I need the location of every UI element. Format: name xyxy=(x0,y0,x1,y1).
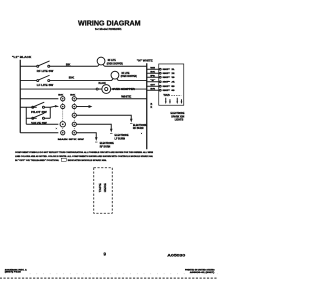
spark gap 1 xyxy=(165,98,171,104)
connector pin R2 xyxy=(72,104,76,108)
label VALVE SW xyxy=(31,122,47,125)
label ELECTRODE RF BURN xyxy=(133,125,147,130)
note line 1 xyxy=(15,151,154,162)
label ELECTRODE LF BURN xyxy=(115,135,129,140)
label MAIN SPK SW xyxy=(58,138,86,141)
svg-text:ELECTRODE: ELECTRODE xyxy=(170,113,184,115)
svg-text:WHITE: WHITE xyxy=(121,96,132,99)
wire row2 to lamp xyxy=(50,80,112,82)
wire bottom row5 from bus xyxy=(20,132,58,134)
lamp OVEN (double circle) xyxy=(102,85,111,94)
electrode LF arrow xyxy=(110,129,113,133)
svg-text:WIRING DIAGRAM: WIRING DIAGRAM xyxy=(78,20,141,27)
svg-text:PRINTED IN UNITED STATES: PRINTED IN UNITED STATES xyxy=(185,268,215,271)
svg-text:LF LITE SW: LF LITE SW xyxy=(37,83,54,87)
svg-text:BLACK: BLACK xyxy=(98,82,106,85)
module box spark module xyxy=(159,64,184,105)
page number 9 xyxy=(104,251,107,256)
svg-text:ELECTRODE: ELECTRODE xyxy=(133,125,147,127)
faint dots row xyxy=(30,273,218,275)
svg-text:ELECTRODE: ELECTRODE xyxy=(100,143,114,145)
wire row1 left xyxy=(20,65,37,67)
spark gap 2 xyxy=(176,98,182,104)
electrode RF arrow xyxy=(130,119,133,123)
bus N (right vertical) xyxy=(146,63,148,149)
svg-text:VALVE SW: VALVE SW xyxy=(31,122,47,125)
svg-text:BR: BR xyxy=(150,89,155,91)
wire conn row4 xyxy=(76,124,111,129)
wire row1 to N bus xyxy=(104,65,146,67)
label HERE vertical xyxy=(103,183,107,192)
wire connector row1 from bus xyxy=(20,98,58,100)
svg-text:"N" WHITE: "N" WHITE xyxy=(137,58,153,62)
wire conn row5 xyxy=(76,133,96,138)
tape here dashed box xyxy=(94,168,113,214)
connector pin R5 xyxy=(72,131,76,135)
title WIRING DIAGRAM xyxy=(78,20,141,27)
svg-text:A05030-01 (9907): A05030-01 (9907) xyxy=(190,271,215,274)
switch LF LITE SW xyxy=(37,75,50,81)
label BK row1 xyxy=(66,64,71,67)
svg-text:INDICATES MODULE SPARK IGN.: INDICATES MODULE SPARK IGN. xyxy=(68,159,107,162)
module pin texts xyxy=(163,69,177,92)
svg-text:TAB: TAB xyxy=(163,94,170,97)
svg-text:PILOT SW: PILOT SW xyxy=(31,111,47,114)
svg-text:(OVEN CHOPPER): (OVEN CHOPPER) xyxy=(107,62,123,65)
svg-text:COMPONENT SYMBOLS DO NOT REFLE: COMPONENT SYMBOLS DO NOT REFLECT TRUE CO… xyxy=(15,151,154,154)
svg-text:BK: BK xyxy=(66,64,71,67)
wire row2 left xyxy=(20,80,37,82)
svg-text:"L1" BLACK: "L1" BLACK xyxy=(12,55,32,59)
note checkbox xyxy=(61,158,66,161)
svg-text:RF BURN: RF BURN xyxy=(133,128,144,130)
wire SW outputs xyxy=(44,107,50,118)
switch VALVE SW xyxy=(32,113,45,119)
terminal dot row3 xyxy=(96,88,98,90)
svg-text:TAPE: TAPE xyxy=(98,183,102,192)
svg-text:WH: WH xyxy=(150,68,155,70)
label ELECTRODE RR BURN xyxy=(100,143,114,148)
svg-text:(9907) P24S: (9907) P24S xyxy=(5,271,22,274)
lamp RF LITE (omega) xyxy=(97,57,105,66)
wire SW2 feed xyxy=(26,117,37,119)
label WH xyxy=(121,96,132,99)
label LF LITE lamp2 xyxy=(121,72,137,78)
connector pin R1 xyxy=(72,97,76,101)
connector pin L5 xyxy=(61,131,65,135)
switch RF LITE SW xyxy=(37,61,50,67)
svg-text:BK: BK xyxy=(70,94,76,96)
electrode RR arrow xyxy=(95,137,98,141)
footer right text xyxy=(185,268,215,274)
connector pin L4 xyxy=(60,122,65,127)
wire bracket feed xyxy=(20,106,37,108)
wire row3 to N bus xyxy=(111,88,147,90)
label RF LITE SW xyxy=(37,69,54,73)
label LF LITE SW xyxy=(37,83,54,87)
svg-text:IN "OFF" OR "RELEASED" POSITIO: IN "OFF" OR "RELEASED" POSITION. xyxy=(15,159,59,162)
bus L1 (left vertical) xyxy=(19,60,21,133)
label L1 BLACK xyxy=(12,55,32,59)
svg-text:9: 9 xyxy=(104,251,107,256)
connector pin L1 xyxy=(61,97,65,101)
wire bracket bottom to row4 xyxy=(26,123,58,125)
labels BK BK above connector xyxy=(58,94,76,96)
speck x xyxy=(56,128,57,129)
footer left text xyxy=(5,268,28,273)
connector pin R3 xyxy=(72,113,76,117)
bracket left bar xyxy=(25,107,27,124)
lamp LF LITE (omega) xyxy=(111,71,119,80)
svg-text:LIGHTS: LIGHTS xyxy=(175,120,184,122)
svg-text:K: K xyxy=(151,106,153,109)
svg-text:for Model P24S2451: for Model P24S2451 xyxy=(95,27,122,31)
svg-text:RF LITE SW: RF LITE SW xyxy=(37,69,54,73)
connector pin R4 xyxy=(72,122,76,126)
svg-text:ELECTRODE: ELECTRODE xyxy=(115,135,129,137)
label TAPE vertical xyxy=(98,183,102,192)
svg-text:(OVEN CHOPPER): (OVEN CHOPPER) xyxy=(121,75,137,78)
wire conn row3 xyxy=(76,115,131,119)
module pin wire 3 xyxy=(147,76,159,78)
module tab dashes xyxy=(171,95,181,97)
label RF LITE lamp1 xyxy=(107,59,123,65)
connector chain dashed right xyxy=(73,97,75,135)
label BK row2 xyxy=(69,77,75,80)
svg-text:LINE COLORS ARE AS NOTED. COLO: LINE COLORS ARE AS NOTED. COLOR IS WHITE… xyxy=(15,155,153,158)
label OVEN CHOPPER xyxy=(112,88,135,91)
module pin circles xyxy=(159,68,161,91)
label BK vertical xyxy=(151,103,153,109)
svg-text:RF BURN: RF BURN xyxy=(100,146,111,148)
svg-text:MAIN SPK SW: MAIN SPK SW xyxy=(58,138,86,141)
perforation dotted rule xyxy=(0,277,218,279)
label BLACK xyxy=(98,82,106,85)
module pin wire 1 xyxy=(147,68,159,70)
label N WHITE xyxy=(137,58,153,62)
label ELECTRODE SPARK IGN xyxy=(170,113,184,122)
module TAB text xyxy=(163,94,170,97)
module pin wire 2 xyxy=(147,72,159,74)
svg-text:SPARK IGN: SPARK IGN xyxy=(171,115,184,118)
svg-text:BK: BK xyxy=(69,77,75,80)
svg-text:LF BURN: LF BURN xyxy=(115,138,126,140)
wire row1 to lamp xyxy=(50,65,98,67)
speck xyxy=(140,133,143,134)
wire row3 xyxy=(20,88,96,90)
svg-text:HERE: HERE xyxy=(103,183,107,192)
svg-text:BK: BK xyxy=(58,94,64,96)
svg-text:A05030: A05030 xyxy=(167,252,186,257)
bar SW outputs xyxy=(49,107,51,118)
wire to row2 connector xyxy=(50,106,58,107)
code A05030 xyxy=(167,252,186,257)
module pin wire 5 xyxy=(147,85,159,87)
module wire labels xyxy=(150,68,157,91)
wire conn row2 arrow xyxy=(76,106,88,108)
subtitle for Model xyxy=(95,27,122,31)
connector pin L2 xyxy=(61,104,65,108)
module pin wire 6 xyxy=(147,89,159,91)
module pin wire 4 xyxy=(147,81,159,83)
label PILOT SW xyxy=(31,111,47,114)
connector chain dashed left xyxy=(62,97,64,135)
wire row3 short xyxy=(98,88,102,90)
switch PILOT SW xyxy=(32,102,45,108)
wire row2 to N bus xyxy=(118,80,146,82)
svg-text:BK: BK xyxy=(150,72,155,74)
wire conn row1 to N bus xyxy=(76,98,146,100)
